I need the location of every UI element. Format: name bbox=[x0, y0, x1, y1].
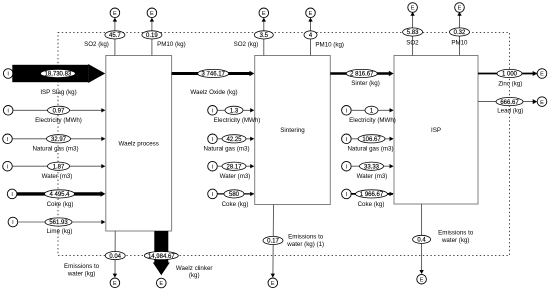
svg-text:water (kg): water (kg) bbox=[441, 237, 470, 244]
svg-text:Electricity (MWh): Electricity (MWh) bbox=[214, 117, 261, 124]
svg-text:3 746.17: 3 746.17 bbox=[202, 72, 226, 78]
svg-text:PM10 (kg): PM10 (kg) bbox=[315, 41, 344, 48]
svg-text:33.33: 33.33 bbox=[364, 164, 380, 170]
input: ISP Natural gas bbox=[342, 134, 352, 144]
output: Waelz clinker (thick arrow) bbox=[154, 231, 168, 263]
input: Sintering Natural gas bbox=[208, 134, 218, 144]
svg-text:E: E bbox=[113, 11, 117, 17]
output: ISP emissions to water bbox=[421, 204, 423, 274]
input: ISP Water bbox=[342, 161, 352, 171]
svg-text:42.25: 42.25 bbox=[226, 137, 242, 143]
svg-text:0.4: 0.4 bbox=[417, 238, 426, 244]
svg-text:Emissions to: Emissions to bbox=[288, 233, 324, 240]
flow: Waelz PM10 to E bbox=[151, 19, 153, 56]
input: Sintering Water bbox=[208, 161, 218, 171]
flow: ISP PM10 to E bbox=[459, 13, 461, 56]
svg-text:Water (m3): Water (m3) bbox=[42, 173, 73, 180]
svg-text:0.17: 0.17 bbox=[267, 239, 279, 245]
svg-text:2 816.67: 2 816.67 bbox=[350, 72, 374, 78]
svg-text:Natural gas (m3): Natural gas (m3) bbox=[203, 146, 249, 153]
svg-text:Lead (kg): Lead (kg) bbox=[497, 107, 523, 114]
svg-text:1 000: 1 000 bbox=[502, 72, 518, 78]
svg-text:3.5: 3.5 bbox=[260, 33, 269, 39]
svg-text:14,984.67: 14,984.67 bbox=[148, 254, 175, 260]
flow: Waelz Oxide bbox=[172, 72, 250, 75]
input: Waelz Lime bbox=[8, 217, 18, 227]
svg-text:E: E bbox=[271, 281, 275, 287]
process box: Waelz process bbox=[106, 56, 172, 232]
svg-text:Water (m3): Water (m3) bbox=[220, 173, 251, 180]
svg-text:E: E bbox=[540, 72, 544, 78]
svg-text:E: E bbox=[150, 11, 154, 17]
svg-text:Electricity (MWh): Electricity (MWh) bbox=[35, 117, 82, 124]
svg-text:106.67: 106.67 bbox=[362, 137, 381, 143]
svg-text:45.7: 45.7 bbox=[109, 33, 121, 39]
svg-text:PM10 (kg): PM10 (kg) bbox=[157, 41, 186, 48]
svg-text:Waelz process: Waelz process bbox=[119, 141, 159, 148]
svg-text:ISP Slag (kg): ISP Slag (kg) bbox=[40, 89, 76, 96]
process box: ISP bbox=[394, 56, 478, 205]
svg-text:0.32: 0.32 bbox=[454, 30, 466, 36]
process box: Sintering bbox=[255, 56, 331, 205]
svg-text:1.3: 1.3 bbox=[230, 109, 239, 115]
output: Lead bbox=[478, 101, 537, 103]
flow: Waelz SO2 to E bbox=[114, 19, 116, 56]
svg-text:Natural gas (m3): Natural gas (m3) bbox=[347, 146, 393, 153]
svg-text:E: E bbox=[113, 281, 117, 287]
svg-text:28.17: 28.17 bbox=[226, 164, 242, 170]
input: Sintering Electricity bbox=[208, 106, 218, 116]
svg-text:561.93: 561.93 bbox=[49, 220, 68, 226]
svg-text:SO2 (kg): SO2 (kg) bbox=[84, 41, 109, 48]
svg-text:0.04: 0.04 bbox=[109, 254, 121, 260]
input: Sintering Coke bbox=[208, 189, 218, 199]
svg-text:Waelz Oxide (kg): Waelz Oxide (kg) bbox=[190, 89, 237, 96]
svg-text:water (kg): water (kg) bbox=[67, 271, 96, 278]
svg-text:Sintering: Sintering bbox=[280, 127, 305, 134]
svg-text:Coke (kg): Coke (kg) bbox=[358, 201, 385, 208]
svg-text:580: 580 bbox=[229, 192, 240, 198]
svg-text:4 495.4: 4 495.4 bbox=[49, 192, 70, 198]
svg-text:water (kg) (1): water (kg) (1) bbox=[286, 241, 324, 248]
flow: ISP SO2 to E bbox=[412, 13, 414, 56]
output: Zinc bbox=[478, 73, 537, 75]
input: Waelz Water bbox=[3, 161, 13, 171]
svg-text:PM10: PM10 bbox=[451, 40, 468, 47]
input: ISP Slag (thick arrow) bbox=[3, 69, 13, 79]
input: ISP Electricity bbox=[342, 106, 352, 116]
svg-text:SO2 (kg): SO2 (kg) bbox=[234, 41, 259, 48]
flow: Sinter bbox=[330, 72, 389, 75]
svg-text:Zinc (kg): Zinc (kg) bbox=[498, 80, 522, 87]
svg-text:Sinter (kg): Sinter (kg) bbox=[351, 80, 380, 87]
svg-text:18,730.83: 18,730.83 bbox=[45, 72, 72, 78]
output: Waelz emissions to water bbox=[114, 231, 116, 277]
svg-text:5.83: 5.83 bbox=[407, 30, 419, 36]
svg-text:Water (m3): Water (m3) bbox=[357, 173, 388, 180]
svg-text:Coke (kg): Coke (kg) bbox=[47, 201, 74, 208]
svg-text:E: E bbox=[262, 11, 266, 17]
svg-text:Waelz clinker: Waelz clinker bbox=[176, 265, 213, 272]
svg-text:Lime (kg): Lime (kg) bbox=[47, 228, 73, 235]
svg-text:ISP: ISP bbox=[431, 127, 441, 134]
svg-text:0.19: 0.19 bbox=[146, 33, 158, 39]
svg-text:32.97: 32.97 bbox=[51, 137, 67, 143]
input: ISP Coke bbox=[342, 189, 352, 199]
svg-text:1 966.67: 1 966.67 bbox=[360, 192, 384, 198]
svg-text:666.67: 666.67 bbox=[500, 100, 519, 106]
flow: Sintering SO2 to E bbox=[263, 19, 265, 56]
svg-text:Emissions to: Emissions to bbox=[438, 229, 474, 236]
svg-text:E: E bbox=[411, 6, 415, 12]
svg-text:Natural gas (m3): Natural gas (m3) bbox=[32, 146, 78, 153]
input: Waelz Natural gas bbox=[3, 134, 13, 144]
output: Sintering emissions to water bbox=[272, 205, 275, 277]
input: Waelz Electricity bbox=[3, 106, 13, 116]
svg-text:E: E bbox=[420, 277, 424, 283]
svg-text:E: E bbox=[159, 281, 163, 287]
system boundary (dashed) bbox=[58, 32, 510, 255]
svg-text:E: E bbox=[458, 6, 462, 12]
svg-text:(kg): (kg) bbox=[189, 272, 200, 279]
flow: Sintering PM10 to E bbox=[310, 19, 312, 56]
svg-text:Coke (kg): Coke (kg) bbox=[222, 201, 249, 208]
svg-text:Electricity (MWh): Electricity (MWh) bbox=[349, 117, 396, 124]
svg-text:1.87: 1.87 bbox=[53, 164, 65, 170]
svg-text:E: E bbox=[309, 11, 313, 17]
input: Waelz Coke (thick) bbox=[7, 189, 17, 199]
svg-text:SO2: SO2 bbox=[406, 40, 419, 47]
svg-text:0.97: 0.97 bbox=[53, 109, 65, 115]
svg-text:E: E bbox=[540, 100, 544, 106]
svg-text:Emissions to: Emissions to bbox=[64, 263, 100, 270]
